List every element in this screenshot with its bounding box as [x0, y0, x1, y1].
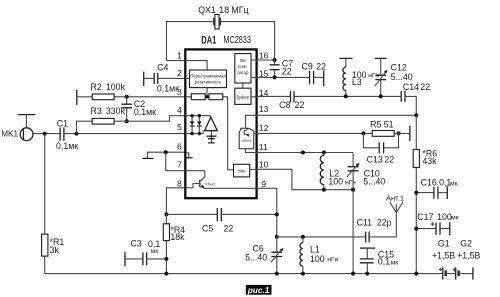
svg-text:DA1: DA1 [201, 35, 216, 47]
junction node C3/R4 [164, 257, 168, 261]
capacitor C2 0,1mk [121, 97, 156, 121]
wire R1 column [44, 134, 46, 274]
wire pin 14 [257, 95, 291, 97]
svg-text:43k: 43k [422, 156, 437, 166]
svg-text:2: 2 [177, 68, 182, 78]
svg-text:100: 100 [310, 254, 325, 264]
junction node pin13/C14 column [414, 113, 418, 117]
internal ground marks under amplifier [206, 131, 216, 143]
svg-text:Буфер: Буфер [236, 94, 249, 99]
svg-text:1: 1 [177, 51, 182, 61]
junction nodes R5/C13 [361, 131, 365, 135]
junction node C6 top [275, 235, 279, 239]
svg-text:C16: C16 [421, 178, 437, 188]
wire between battery cells [447, 273, 456, 275]
svg-text:C4: C4 [157, 62, 168, 72]
wire pin 15 [257, 76, 310, 78]
svg-text:рис.1: рис.1 [247, 286, 270, 295]
svg-text:нГн: нГн [368, 73, 379, 80]
junction node C10 bottom [351, 188, 355, 192]
wire pin 10 to tank bottom rail [257, 169, 354, 189]
svg-text:18k: 18k [170, 232, 185, 242]
svg-text:R5: R5 [370, 120, 381, 130]
IC DA1 MC2833 body [185, 35, 256, 199]
svg-text:5: 5 [177, 122, 182, 132]
svg-text:C14: C14 [403, 82, 419, 92]
svg-text:C9: C9 [302, 62, 313, 72]
junction node C5/R4/pin8 [164, 212, 168, 216]
capacitor C14 22 [401, 82, 430, 116]
svg-text:+1,5В: +1,5В [432, 250, 455, 260]
svg-text:C13: C13 [367, 155, 383, 165]
svg-text:6: 6 [177, 142, 182, 152]
junction node L2 top [322, 151, 326, 155]
wire jumper pin6 to pin7 [166, 152, 186, 171]
antenna coupling rail [277, 236, 366, 238]
svg-text:G2: G2 [460, 238, 472, 248]
svg-text:330k: 330k [106, 106, 126, 116]
wire pin 11 / tank top rail [257, 152, 354, 154]
junction node mic/R1 [43, 132, 47, 136]
svg-text:13: 13 [259, 104, 269, 114]
svg-text:L3: L3 [352, 77, 362, 87]
inductor L1 100 nGn [300, 237, 338, 274]
svg-text:5...40: 5...40 [391, 72, 413, 82]
wire pin 13 [257, 114, 417, 116]
svg-text:4: 4 [177, 105, 182, 115]
internal block tunable reactance [185, 61, 226, 88]
battery G2 +1,5V with end terminal [453, 238, 481, 279]
trimmer capacitor C12 5...40 with top terminal [375, 58, 413, 96]
wire pin 9 to C5 and LC rail [257, 188, 277, 237]
resistor R6 43k [413, 115, 437, 273]
capacitor C9 22 with open terminal [302, 62, 327, 86]
svg-text:100: 100 [328, 177, 343, 187]
junction node L2 bottom [322, 188, 326, 192]
svg-text:18 МГц: 18 МГц [219, 5, 248, 15]
wire pin 8 to C5/R4 node [166, 188, 185, 215]
svg-text:C11: C11 [357, 217, 373, 227]
capacitor C16 0,1mk with open terminal [416, 178, 457, 199]
svg-text:мк: мк [391, 259, 399, 266]
junction nodes on ground bus [164, 272, 168, 276]
svg-text:G1: G1 [438, 238, 450, 248]
capacitor C11 22p [357, 217, 397, 242]
svg-text:VTюст: VTюст [205, 183, 216, 187]
svg-text:мк: мк [451, 215, 459, 222]
internal transistor block VTgn2 (right) [239, 115, 256, 152]
resistor R5 51 [370, 120, 394, 137]
pin numbers left side [177, 51, 182, 189]
svg-text:22: 22 [420, 82, 430, 92]
svg-text:22: 22 [282, 66, 292, 76]
electrolytic capacitor C17 100mk with open terminal [416, 212, 458, 235]
junction node pin3/C2 [125, 95, 129, 99]
crystal QX1 18 MHz [167, 5, 275, 61]
svg-text:22p: 22p [377, 217, 392, 227]
svg-text:QX1: QX1 [198, 5, 216, 15]
junction node C5 right [275, 212, 279, 216]
capacitor C8 22 [279, 91, 401, 110]
junction node C16 [414, 191, 418, 195]
junction node L1 top [301, 235, 305, 239]
junction node R3 drop on mic wire [75, 132, 79, 136]
capacitor C13 22 parallel loop [363, 133, 398, 164]
svg-text:L1: L1 [310, 244, 320, 254]
trimmer capacitor C10 5...40 [347, 153, 385, 190]
internal block multiplier [234, 164, 257, 177]
capacitor C1 0,1mk [56, 118, 78, 150]
svg-text:5...40: 5...40 [245, 253, 267, 263]
svg-text:Перестраиваемая: Перестраиваемая [190, 74, 225, 79]
junction node L1 drop on pin11 rail [301, 151, 305, 155]
resistor R2 100k with open terminal [77, 82, 126, 105]
svg-text:C12: C12 [391, 63, 407, 73]
wire R5 right to open terminal [394, 126, 410, 141]
svg-text:мк: мк [151, 248, 159, 255]
svg-text:R2: R2 [91, 82, 102, 92]
svg-text:22: 22 [384, 155, 394, 165]
wire pin 12 [257, 132, 373, 134]
svg-text:10: 10 [259, 160, 269, 170]
inductor L2 100nGn [320, 153, 356, 190]
junction node C7/pin15 [273, 75, 277, 79]
svg-text:ВЧ: ВЧ [240, 58, 246, 63]
capacitor C5 22 [166, 208, 276, 233]
svg-text:нГн: нГн [345, 179, 356, 186]
junction node pin6/pin7 jumper [164, 150, 168, 154]
microphone MK1 [1, 115, 35, 141]
svg-text:16: 16 [259, 51, 269, 61]
internal zener diode pair and amplifier [185, 114, 217, 135]
svg-text:ратор: ратор [237, 70, 249, 75]
svg-text:100: 100 [437, 212, 452, 222]
svg-text:0,1: 0,1 [378, 257, 390, 267]
ground bus wire [45, 273, 443, 275]
svg-text:22: 22 [316, 62, 326, 72]
svg-text:C1: C1 [57, 118, 68, 128]
capacitor C15 0,1mk with top terminal [360, 248, 398, 273]
wire R3 to pin 4 with jog [114, 116, 185, 122]
battery G1 +1,5V [432, 238, 455, 279]
junction node crystal/pin16/C7 [273, 58, 277, 62]
resistor R1 3k [42, 234, 65, 256]
svg-text:12: 12 [259, 123, 269, 133]
svg-text:MC2833: MC2833 [223, 35, 251, 46]
svg-text:реактивность: реактивность [195, 80, 222, 85]
wire pin 1 [167, 60, 186, 62]
junction node C12/pin14 [379, 94, 383, 98]
trimmer capacitor C6 5...40 [245, 237, 283, 274]
svg-text:VTгн2: VTгн2 [242, 139, 252, 143]
inductor L3 100nGn with top terminal [340, 58, 380, 96]
svg-text:3: 3 [177, 87, 182, 97]
svg-text:11: 11 [259, 142, 268, 152]
svg-text:Ант.1: Ант.1 [386, 194, 404, 203]
wire C1 to pin 5 [64, 133, 185, 135]
internal pin6 stub with bar [186, 153, 193, 158]
svg-text:C17: C17 [417, 212, 433, 222]
capacitor C7 22 [270, 59, 294, 78]
internal transistor VTust (bottom left) [185, 171, 256, 189]
junction node L3/pin14 [344, 94, 348, 98]
svg-text:51: 51 [384, 120, 394, 130]
wire pin 6 with down terminal bar [143, 152, 186, 158]
svg-text:гене-: гене- [238, 64, 248, 69]
junction node C17 [414, 227, 418, 231]
capacitor C3 0,1mk with open terminal [125, 238, 166, 266]
internal block buffer [235, 88, 257, 104]
svg-text:0,1мк: 0,1мк [157, 84, 179, 94]
wire mic output to C1 [33, 133, 60, 135]
resistor R3 330k [77, 106, 126, 134]
svg-text:C8: C8 [279, 100, 290, 110]
svg-text:22: 22 [224, 223, 234, 233]
svg-text:100k: 100k [106, 82, 126, 92]
svg-text:Умн: Умн [238, 169, 246, 174]
svg-text:C5: C5 [202, 223, 213, 233]
svg-text:нГн: нГн [327, 257, 338, 264]
svg-text:5...40: 5...40 [363, 176, 385, 186]
antenna Ant.1 [386, 194, 404, 237]
svg-text:0,1мк: 0,1мк [134, 107, 156, 117]
internal block RF generator [235, 54, 257, 89]
svg-text:мк: мк [450, 180, 458, 187]
svg-text:22: 22 [295, 100, 305, 110]
junction node C2/R3 [125, 119, 129, 123]
svg-text:+1,5В: +1,5В [457, 250, 480, 260]
resistor R4 18k [163, 214, 185, 273]
figure caption ris.1 [246, 285, 272, 295]
svg-text:7: 7 [177, 159, 182, 169]
svg-text:R3: R3 [91, 106, 102, 116]
wire pin 16 to crystal column [257, 59, 275, 61]
pin numbers right side [259, 51, 269, 189]
wire R2 to pin 3 [114, 96, 185, 98]
capacitor C4 0,1mk with open terminal [144, 62, 186, 93]
svg-text:9: 9 [261, 179, 266, 189]
svg-text:MK1: MK1 [1, 130, 18, 139]
svg-text:C3: C3 [131, 238, 142, 248]
internal resistor divider row [185, 88, 233, 170]
svg-text:3k: 3k [50, 245, 60, 255]
svg-text:8: 8 [177, 179, 182, 189]
svg-text:0,1мк: 0,1мк [56, 141, 78, 151]
wire C10 column down to ground bus [352, 190, 354, 274]
